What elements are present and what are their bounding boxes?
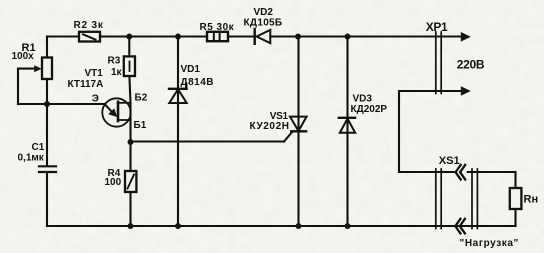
resistor R1 100k potentiometer — [46, 37, 48, 58]
svg-text:VD1: VD1 — [181, 64, 201, 75]
svg-text:Б2: Б2 — [135, 93, 148, 104]
resistor R4 100 — [129, 142, 131, 171]
svg-text:R3: R3 — [108, 55, 121, 66]
wire top rail after VD2 to XP1 arrow — [270, 35, 462, 37]
svg-text:R2 3к: R2 3к — [74, 20, 104, 31]
svg-text:VT1: VT1 — [85, 68, 104, 79]
node R3 top — [126, 34, 132, 40]
svg-text:XP1: XP1 — [426, 20, 448, 34]
zener diode VD1 D814V — [177, 37, 179, 227]
svg-text:Э: Э — [92, 94, 99, 105]
node VD1 bottom — [175, 223, 181, 229]
svg-text:Rн: Rн — [524, 194, 539, 206]
wire down from XP1 lower pin — [398, 91, 400, 172]
wire top rail middle segment — [100, 35, 207, 37]
connector XS1 boundary lines left — [435, 169, 437, 229]
wire XS1 top — [399, 171, 454, 173]
svg-text:100: 100 — [105, 177, 122, 188]
diode VD3 KD202R — [346, 37, 348, 227]
transistor VT1 KT117A unijunction — [102, 98, 130, 126]
wire top rail left segment — [47, 35, 79, 37]
wire emitter — [47, 103, 105, 105]
node VS1 top — [295, 34, 301, 40]
svg-text:КД105Б: КД105Б — [244, 18, 283, 29]
resistor R5 30k — [207, 32, 228, 41]
svg-text:220В: 220В — [457, 58, 485, 72]
svg-text:XS1: XS1 — [439, 155, 460, 167]
socket contact chevrons XS1 top — [456, 165, 461, 180]
resistor Rn load — [514, 172, 516, 188]
svg-text:Д814В: Д814В — [181, 77, 215, 88]
socket contact chevrons XS1 bottom — [455, 219, 460, 234]
svg-text:R5 30к: R5 30к — [200, 22, 235, 33]
node VD3 bottom — [345, 223, 351, 229]
svg-text:VD3: VD3 — [353, 94, 373, 105]
node emitter junction — [44, 101, 50, 107]
connector XP1 boundary lines — [435, 32, 437, 94]
wire XP1 lower pin — [399, 90, 462, 92]
connector XS1 boundary lines right — [471, 169, 473, 229]
svg-text:C1: C1 — [32, 142, 45, 153]
svg-text:"Нагрузка": "Нагрузка" — [460, 238, 519, 249]
node VD1 top — [175, 34, 181, 40]
wire gate to VS1 — [131, 140, 285, 142]
node B1 junction — [128, 139, 134, 145]
wire top rail after R5 — [228, 35, 255, 37]
resistor R2 3k — [79, 32, 100, 42]
svg-text:Б1: Б1 — [134, 120, 147, 131]
svg-text:VD2: VD2 — [254, 7, 274, 18]
svg-text:100х: 100х — [12, 51, 35, 62]
pin arrow XP1 bottom — [461, 86, 471, 96]
resistor R3 1k — [128, 37, 130, 57]
svg-text:1к: 1к — [111, 67, 123, 78]
svg-text:0,1мк: 0,1мк — [18, 152, 45, 163]
svg-text:КД202Р: КД202Р — [351, 104, 388, 115]
svg-text:КУ202Н: КУ202Н — [250, 121, 290, 132]
capacitor C1 — [46, 104, 48, 166]
node VD3 top — [345, 34, 351, 40]
thyristor VS1 KU202N — [297, 37, 299, 227]
pin arrow XP1 top — [461, 32, 471, 42]
node R4 bottom — [128, 223, 134, 229]
wire bottom rail — [47, 225, 516, 227]
diode VD2 KD105B — [253, 29, 255, 44]
svg-text:КТ117А: КТ117А — [68, 79, 104, 90]
node VS1 bottom — [296, 223, 302, 229]
